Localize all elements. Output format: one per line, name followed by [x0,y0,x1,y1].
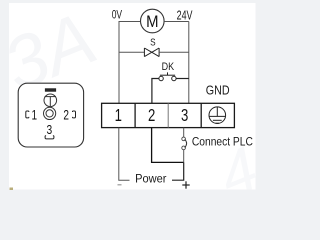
wire terminal 1 down to power minus [119,128,130,181]
motor U1 circle [141,9,165,33]
svg-text:24V: 24V [177,7,193,22]
wire PLC switch down to junction [183,150,185,163]
svg-text:2: 2 [63,107,69,122]
tiny yellow dot artifact [10,188,14,191]
wire left vertical 0V to terminal 1 [118,22,120,104]
svg-text:3: 3 [46,122,52,137]
svg-text:S: S [150,37,156,49]
wire motor to 24V corner [164,21,189,23]
grey border strips [0,0,266,3]
wire terminal 3 down to PLC switch [183,128,185,138]
connector center hole [44,107,56,119]
svg-text:GND: GND [206,82,230,97]
pin 3 socket cup [45,136,54,139]
wire 0V horizontal to motor [119,22,140,32]
svg-text:1: 1 [32,107,38,122]
svg-text:2: 2 [148,105,155,125]
switch DK contact circles [159,76,163,80]
wire DK left + down to terminal 2 [152,79,159,104]
terminal divider 1|2 [134,103,136,127]
connector screw circle [44,94,57,107]
connector keyway bar [45,89,55,92]
wire S left [119,51,144,53]
svg-text:3: 3 [181,105,188,125]
svg-text:Connect PLC: Connect PLC [192,135,253,149]
svg-text:DK: DK [162,61,175,73]
svg-text:1: 1 [115,105,122,125]
pin 2 socket bracket [73,111,76,118]
label minus [118,184,122,186]
svg-text:M: M [146,12,158,31]
switch Connect PLC contact [182,137,186,141]
suppressor S bowtie [144,48,159,57]
wire S right [159,51,189,53]
label plus [182,184,189,186]
earth terminal symbol [209,107,226,124]
page white background [9,3,256,190]
wire power plus dash up to junction [172,162,184,180]
terminal divider 2|3 [167,103,169,127]
svg-text:Power: Power [135,173,166,185]
pin 1 socket bracket [26,111,29,118]
wire DK right [176,78,189,80]
connector J1 body [18,83,83,147]
terminal divider 3|E [200,103,202,127]
svg-text:0V: 0V [112,8,123,22]
wire terminal 2 down and right to junction [152,128,184,163]
wire right vertical 24V to terminal 3 [188,22,190,104]
switch DK bar and tick [160,74,175,76]
terminal block outline [102,103,235,127]
